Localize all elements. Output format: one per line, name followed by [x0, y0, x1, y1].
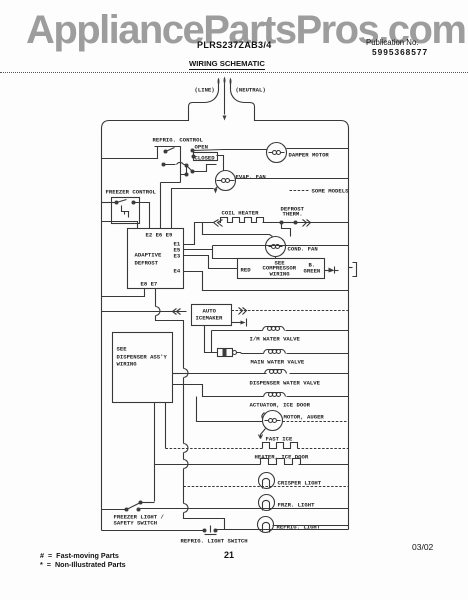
wire: heater ice door feed [155, 464, 261, 466]
wire: green lead with connector [325, 267, 339, 274]
svg-text:WIRING: WIRING [270, 271, 291, 278]
auger motor [262, 411, 283, 431]
label FREEZER LIGHT / SAFETY SWITCH [114, 514, 165, 527]
wire: dispenser box to dispenser valve row [173, 373, 187, 375]
freezer control box [112, 198, 140, 224]
freezer light / safety switch [102, 501, 155, 512]
wire: neutral drop into cabinet [223, 91, 227, 121]
svg-text:REFRIG. LIGHT: REFRIG. LIGHT [277, 524, 321, 531]
header rule [0, 72, 468, 73]
svg-text:ICEMAKER: ICEMAKER [196, 315, 223, 322]
svg-text:SEE: SEE [117, 346, 128, 353]
svg-text:CRISPER LIGHT: CRISPER LIGHT [278, 480, 322, 487]
wire: bottom edge left segment [102, 530, 205, 532]
dispenser assy box [113, 333, 173, 403]
svg-text:COND. FAN: COND. FAN [288, 246, 318, 253]
svg-text:SAFETY SWITCH: SAFETY SWITCH [114, 520, 158, 527]
wire: I/M valve to right bus [286, 330, 349, 332]
inline component on main valve row [218, 349, 237, 357]
svg-text:REFRIG. CONTROL: REFRIG. CONTROL [153, 137, 204, 144]
svg-text:REFRIG. LIGHT SWITCH: REFRIG. LIGHT SWITCH [181, 538, 248, 545]
svg-text:COIL HEATER: COIL HEATER [222, 210, 260, 217]
wire: E5 to cond fan line [184, 249, 213, 251]
wire: left bus to defrost top terminal [102, 222, 138, 229]
connector arrows (right of thermostat) [303, 220, 311, 227]
wire: dispenser box drop to fast ice [165, 403, 167, 449]
wire: CLOSED to evap fan [217, 156, 224, 171]
svg-text:(LINE): (LINE) [195, 87, 215, 94]
svg-text:FREEZER CONTROL: FREEZER CONTROL [106, 189, 157, 196]
svg-text:EVAP. FAN: EVAP. FAN [236, 174, 266, 181]
dispenser water valve coil [265, 370, 287, 374]
wire: lower pole to evap fan [193, 165, 217, 172]
wire: cond fan to compressor box [275, 257, 277, 259]
plug prong line (LINE) [218, 78, 220, 91]
wire: icemaker to right bus (dashed, some models) [232, 310, 349, 312]
wire: fast ice to right bus (dashed) [298, 448, 349, 450]
main water valve coil [264, 350, 286, 354]
wire: I/M water valve row [212, 331, 263, 353]
svg-text:E4: E4 [174, 268, 181, 275]
wire: main valve to right bus [287, 353, 349, 355]
evap fan motor [216, 171, 236, 191]
svg-text:WIRING: WIRING [117, 361, 138, 368]
wire: icemaker bottom to main valve row [205, 326, 218, 353]
label DEFROST THERM. [281, 206, 305, 218]
svg-text:DISPENSER WATER VALVE: DISPENSER WATER VALVE [250, 380, 321, 387]
wire: damper motor to right bus [287, 148, 349, 150]
wire: E8 to left bus [102, 289, 145, 297]
connector arrows (coil heater left) [214, 220, 223, 227]
svg-text:MAIN WATER VALVE: MAIN WATER VALVE [251, 359, 305, 366]
wire: OPEN contact to damper motor [193, 150, 267, 151]
wire: crisper feed (dashed) [184, 486, 349, 488]
hop over dispenser valve line [184, 369, 189, 441]
wire: to main water valve [237, 353, 264, 354]
wire: evap fan to right bus [235, 178, 349, 180]
wire: dispenser box drop to heater row [154, 403, 156, 502]
connector arrows right of icemaker [239, 308, 247, 315]
svg-text:THERM.: THERM. [283, 211, 303, 218]
wire: frzr light row [139, 508, 349, 510]
svg-text:AUTO: AUTO [203, 308, 217, 315]
heater ice door element [261, 459, 301, 465]
crisper light lamp [259, 473, 275, 489]
svg-text:RED: RED [241, 267, 252, 274]
publication no [366, 38, 418, 47]
wire: left bus to icemaker [102, 311, 187, 313]
svg-text:FRZR. LIGHT: FRZR. LIGHT [278, 502, 316, 509]
wire: E4 to neutral return [184, 272, 349, 291]
wire: actuator row tap to auger motor [197, 397, 263, 422]
svg-text:E8 E7: E8 E7 [141, 281, 158, 288]
damper motor M1 [267, 143, 287, 163]
svg-text:DAMPER MOTOR: DAMPER MOTOR [289, 152, 330, 159]
wire: freezer control to E2 [134, 203, 150, 229]
svg-text:(NEUTRAL): (NEUTRAL) [236, 87, 266, 94]
wire: actuator to right bus [287, 396, 349, 398]
svg-text:MOTOR, AUGER: MOTOR, AUGER [284, 414, 325, 421]
cond fan motor [266, 237, 286, 257]
main cabinet outline with plug bump [102, 91, 349, 531]
wire: refrig light to right bus [273, 525, 349, 527]
svg-text:CLOSED: CLOSED [195, 155, 216, 162]
wire: fast ice feed (dashed) [166, 448, 263, 450]
svg-text:E3: E3 [174, 253, 181, 260]
svg-text:I/M WATER VALVE: I/M WATER VALVE [250, 336, 301, 343]
wire: E9 riser from evap fan return [172, 189, 214, 229]
wire: left bus to freezer control [102, 202, 116, 204]
fast ice heater element [263, 443, 298, 449]
svg-text:SOME MODELS: SOME MODELS [312, 188, 350, 195]
I/M water valve coil [263, 327, 285, 331]
model number [197, 40, 272, 50]
wire: coil heater to defrost thermostat [263, 222, 282, 224]
ground at evap fan [214, 187, 218, 194]
wire: defrost thermostat to right bus [296, 222, 349, 224]
wire: E1 to coil heater line [184, 223, 214, 245]
svg-text:ACTUATOR, ICE DOOR: ACTUATOR, ICE DOOR [250, 402, 311, 409]
hop over fast ice line [184, 441, 189, 460]
refrig light lamp [258, 517, 274, 533]
title [189, 59, 265, 70]
refrig control switch cluster [155, 147, 196, 183]
footer [40, 551, 119, 560]
svg-text:OPEN: OPEN [195, 144, 208, 151]
connector arrows into icemaker [173, 309, 181, 315]
compressor box [238, 259, 325, 279]
wire: E3 to compressor RED [184, 256, 238, 269]
frzr light lamp [259, 495, 275, 511]
wire: dispenser valve to right bus [290, 373, 349, 375]
hop over heater line [184, 460, 189, 486]
svg-text:GREEN: GREEN [304, 268, 321, 275]
icemaker stub connector [232, 319, 247, 327]
adaptive defrost board [128, 229, 184, 289]
dashed some-models note [290, 188, 350, 195]
defrost thermostat [280, 221, 298, 237]
svg-text:DEFROST: DEFROST [135, 260, 159, 267]
watermark logo [26, 8, 466, 53]
wire: dispenser box to actuator row [173, 385, 264, 397]
plug prong line middle [224, 77, 226, 91]
svg-text:ADAPTIVE: ADAPTIVE [135, 252, 162, 259]
wire: E6 riser [160, 183, 162, 229]
svg-text:E2 E6 E9: E2 E6 E9 [146, 232, 173, 239]
ground at auger motor [259, 429, 266, 439]
CLOSED contact box [194, 153, 218, 162]
wire: auger to right bus (dashed) [283, 421, 349, 423]
wire: heater to right bus [299, 464, 349, 466]
refrig light switch [203, 526, 349, 535]
off-page bracket [349, 263, 357, 277]
wire: therm row tap to cond fan top [203, 223, 273, 237]
wire: E7 drop with hop [156, 289, 184, 369]
coil heater element [220, 218, 265, 223]
actuator coil [264, 393, 286, 397]
wire: vertical continues, hop over frzr line [184, 486, 225, 530]
auto icemaker box [192, 305, 232, 326]
wire: cond fan row to right bus [213, 245, 349, 247]
wire: left bus to refrig control [102, 158, 155, 160]
svg-text:DISPENSER ASS'Y: DISPENSER ASS'Y [117, 354, 168, 361]
svg-text:FAST ICE: FAST ICE [266, 436, 293, 443]
plug prong (NEUTRAL) [230, 78, 232, 91]
